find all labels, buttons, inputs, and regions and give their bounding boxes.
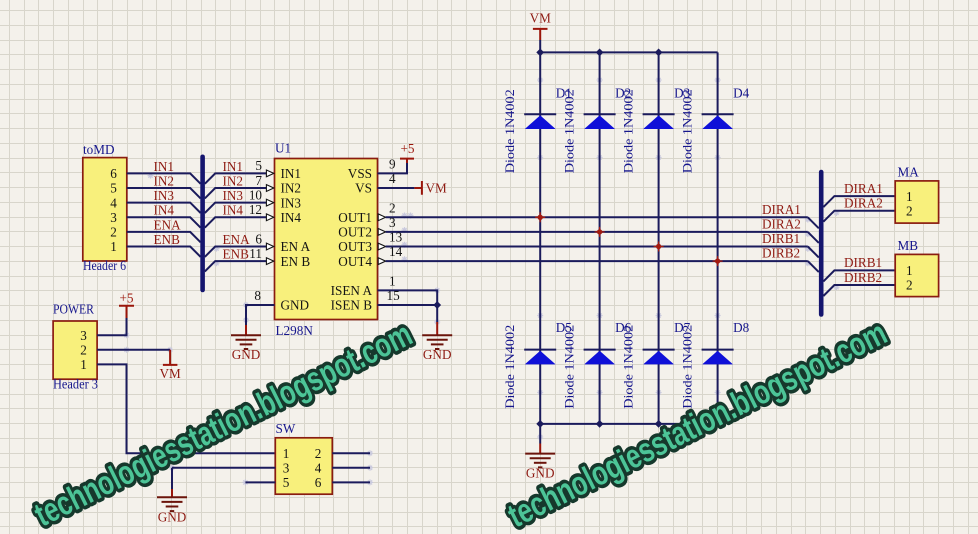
- wire toMD pin 5 (IN2) with bus entry: [127, 188, 201, 198]
- wire VM to top rail: [539, 40, 541, 52]
- power port VM (U1 VS): [414, 181, 422, 195]
- svg-text:DIRB2: DIRB2: [762, 246, 800, 261]
- svg-text:VM: VM: [530, 11, 552, 26]
- svg-text:1: 1: [283, 446, 290, 461]
- wire ENB from bus to U1: [205, 261, 266, 271]
- svg-text:+5: +5: [119, 291, 133, 306]
- connector POWER (Header 3): [53, 302, 98, 392]
- wire ISEN B pin 15: [378, 304, 438, 306]
- svg-text:VS: VS: [355, 181, 372, 196]
- junction bottom rail: [596, 420, 604, 428]
- power port +5 (POWER): [119, 306, 134, 318]
- diode D2 (1N4002): [584, 114, 616, 129]
- wire POWER pin 3 to +5: [97, 318, 126, 335]
- svg-text:6: 6: [110, 166, 117, 181]
- wire ISEN to ground: [436, 305, 438, 322]
- svg-text:MB: MB: [898, 238, 919, 253]
- wire SW pin 3 to ground: [171, 468, 173, 489]
- wire SW pin 6: [332, 481, 370, 483]
- svg-text:MA: MA: [898, 165, 920, 180]
- wire U1 VSS pin 9: [378, 163, 408, 173]
- svg-text:5: 5: [283, 475, 290, 490]
- svg-text:OUT3: OUT3: [338, 239, 372, 254]
- wire DIRA1 to MA: [823, 196, 895, 207]
- svg-text:D8: D8: [733, 320, 750, 335]
- svg-text:+5: +5: [400, 141, 414, 156]
- svg-text:IN3: IN3: [281, 195, 302, 210]
- svg-text:SW: SW: [276, 421, 296, 436]
- svg-text:ENB: ENB: [154, 232, 181, 247]
- svg-text:1: 1: [389, 273, 396, 288]
- svg-text:IN4: IN4: [223, 203, 244, 218]
- switch SW: [275, 421, 332, 494]
- svg-text:5: 5: [110, 181, 117, 196]
- wire ENA from bus to U1: [205, 247, 266, 257]
- svg-text:1: 1: [80, 357, 87, 372]
- bus entry DIRB1 (left): [808, 247, 819, 258]
- svg-text:2: 2: [906, 278, 913, 293]
- wire toMD pin 3 (IN4) with bus entry: [127, 217, 201, 227]
- wire OUT1 / DIR net: [386, 216, 808, 218]
- wire POWER pin 2 to VM: [97, 349, 170, 351]
- svg-text:OUT4: OUT4: [338, 254, 372, 269]
- svg-text:OUT1: OUT1: [338, 210, 372, 225]
- svg-text:POWER: POWER: [53, 302, 94, 317]
- U1 input pin arrows: [266, 170, 273, 265]
- svg-text:IN2: IN2: [154, 173, 175, 188]
- svg-text:VM: VM: [159, 366, 181, 381]
- svg-text:EN A: EN A: [281, 239, 311, 254]
- svg-text:IN4: IN4: [154, 203, 175, 218]
- svg-text:4: 4: [389, 171, 396, 186]
- svg-text:10: 10: [249, 187, 263, 202]
- diode D4 (1N4002): [702, 114, 734, 129]
- connector MB: [895, 238, 938, 297]
- svg-text:IN2: IN2: [223, 173, 244, 188]
- svg-text:IN3: IN3: [223, 188, 244, 203]
- svg-text:2: 2: [110, 225, 117, 240]
- wire toMD pin 6 (IN1) with bus entry: [127, 173, 201, 183]
- junction D1 column to OUT1: [535, 212, 545, 222]
- svg-text:2: 2: [389, 200, 396, 215]
- bus left: [200, 157, 205, 290]
- svg-text:Header 3: Header 3: [53, 377, 98, 392]
- svg-text:Diode 1N4002: Diode 1N4002: [621, 325, 635, 409]
- svg-text:8: 8: [254, 288, 261, 303]
- junction bottom rail: [536, 420, 544, 428]
- svg-text:5: 5: [255, 158, 262, 173]
- wire ISEN A pin 1: [378, 290, 438, 305]
- wire IN3 from bus to U1: [205, 203, 266, 213]
- svg-text:ISEN B: ISEN B: [331, 298, 373, 313]
- svg-text:2: 2: [315, 446, 322, 461]
- svg-text:toMD: toMD: [83, 142, 115, 157]
- junction top rail: [596, 49, 604, 57]
- wire U1 VS pin 4: [378, 187, 415, 189]
- svg-text:IN1: IN1: [223, 159, 244, 174]
- svg-text:VSS: VSS: [348, 166, 372, 181]
- svg-text:Diode 1N4002: Diode 1N4002: [503, 325, 517, 409]
- svg-text:6: 6: [315, 475, 322, 490]
- wire IN2 from bus to U1: [205, 188, 266, 198]
- junction top rail: [536, 49, 544, 57]
- svg-text:Diode 1N4002: Diode 1N4002: [680, 325, 694, 409]
- power port +5 (U1 VSS): [400, 159, 414, 163]
- junction D4 column to OUT4: [713, 256, 723, 266]
- svg-text:Diode 1N4002: Diode 1N4002: [562, 89, 576, 173]
- wire top rail: [540, 51, 717, 53]
- svg-text:3: 3: [80, 328, 87, 343]
- svg-text:VM: VM: [426, 181, 448, 196]
- svg-text:11: 11: [249, 246, 262, 261]
- wire DIRB1 to MB: [823, 270, 895, 281]
- svg-text:DIRB1: DIRB1: [762, 231, 800, 246]
- svg-text:ISEN A: ISEN A: [331, 283, 373, 298]
- svg-text:9: 9: [389, 156, 396, 171]
- wire toMD pin 2 (ENA) with bus entry: [127, 232, 201, 242]
- power port VM (top): [533, 29, 548, 40]
- wire DIRA2 to MA: [823, 211, 895, 222]
- bus right: [819, 172, 824, 315]
- diode D6 (1N4002): [584, 350, 616, 365]
- junction ISEN A/B: [433, 301, 441, 309]
- svg-text:DIRA1: DIRA1: [844, 181, 883, 196]
- svg-text:15: 15: [387, 288, 401, 303]
- bus entry DIRA1 (left): [808, 217, 819, 228]
- wire SW pin 5: [245, 481, 275, 483]
- svg-text:DIRA1: DIRA1: [762, 202, 801, 217]
- junction D3 column to OUT3: [654, 242, 664, 252]
- svg-text:IN2: IN2: [281, 181, 302, 196]
- svg-text:GND: GND: [423, 347, 452, 362]
- wire IN1 from bus to U1: [205, 173, 266, 183]
- svg-text:DIRA2: DIRA2: [762, 217, 801, 232]
- svg-text:OUT2: OUT2: [338, 225, 372, 240]
- wire diode column 3: [658, 52, 660, 424]
- wire SW pin 3: [172, 467, 275, 469]
- svg-text:GND: GND: [281, 298, 310, 313]
- svg-text:3: 3: [389, 215, 396, 230]
- wire OUT3 / DIR net: [386, 246, 808, 248]
- svg-text:14: 14: [389, 244, 403, 259]
- wire toMD pin 4 (IN3) with bus entry: [127, 203, 201, 213]
- diode D8 (1N4002): [702, 350, 734, 365]
- wire bottom rail to ground: [539, 424, 541, 444]
- junction top rail: [655, 49, 663, 57]
- svg-text:1: 1: [110, 239, 117, 254]
- wire U1 GND pin 8: [246, 305, 275, 325]
- svg-text:DIRB2: DIRB2: [844, 270, 882, 285]
- svg-text:D4: D4: [733, 85, 750, 100]
- wire DIRB2 to MB: [823, 285, 895, 296]
- connector toMD (Header 6): [83, 142, 127, 273]
- ground GND (SW): [157, 497, 187, 511]
- svg-text:DIRA2: DIRA2: [844, 196, 883, 211]
- wire IN4 from bus to U1: [205, 217, 266, 227]
- svg-text:Diode 1N4002: Diode 1N4002: [503, 89, 517, 173]
- wire diode column 1: [539, 52, 541, 424]
- svg-text:IN1: IN1: [281, 166, 302, 181]
- svg-text:2: 2: [906, 203, 913, 218]
- wire OUT4 / DIR net: [386, 260, 808, 262]
- ground GND (ISEN): [422, 335, 452, 349]
- svg-text:1: 1: [906, 263, 913, 278]
- connector MA: [895, 165, 938, 223]
- svg-text:7: 7: [255, 173, 262, 188]
- U1 output pin arrows: [378, 214, 385, 265]
- junction bottom rail: [655, 420, 663, 428]
- wire toMD pin 1 (ENB) with bus entry: [127, 247, 201, 257]
- svg-text:13: 13: [389, 230, 403, 245]
- IC U1 L298N: [275, 141, 378, 339]
- svg-text:ENA: ENA: [154, 217, 182, 232]
- svg-text:Diode 1N4002: Diode 1N4002: [562, 325, 576, 409]
- compile marks (grey crosses): [124, 77, 840, 485]
- power port VM (POWER): [163, 350, 178, 365]
- svg-text:U1: U1: [275, 141, 291, 156]
- svg-text:IN1: IN1: [154, 159, 175, 174]
- diode D7 (1N4002): [643, 350, 675, 365]
- ground GND (U1 pin 8): [231, 335, 261, 349]
- svg-text:L298N: L298N: [276, 323, 314, 338]
- svg-text:EN B: EN B: [281, 254, 311, 269]
- wire diode column 2: [599, 52, 601, 424]
- svg-text:12: 12: [249, 202, 262, 217]
- bus entry DIRA2 (left): [808, 232, 819, 243]
- svg-text:ENB: ENB: [223, 247, 250, 262]
- svg-text:1: 1: [906, 189, 913, 204]
- svg-text:6: 6: [255, 231, 262, 246]
- svg-text:GND: GND: [158, 509, 187, 524]
- svg-text:GND: GND: [232, 347, 261, 362]
- diode D1 (1N4002): [524, 114, 556, 129]
- svg-text:DIRB1: DIRB1: [844, 255, 882, 270]
- wire SW pin 2: [332, 452, 370, 454]
- junction D2 column to OUT2: [595, 227, 605, 237]
- svg-text:4: 4: [110, 195, 117, 210]
- svg-text:Header 6: Header 6: [83, 258, 126, 273]
- svg-text:Diode 1N4002: Diode 1N4002: [621, 89, 635, 173]
- bus entry DIRB2 (left): [808, 261, 819, 272]
- svg-text:3: 3: [283, 460, 290, 475]
- svg-text:4: 4: [315, 460, 322, 475]
- svg-text:3: 3: [110, 210, 117, 225]
- svg-text:IN4: IN4: [281, 210, 302, 225]
- wire SW pin 4: [332, 467, 370, 469]
- svg-text:2: 2: [80, 342, 87, 357]
- svg-text:ENA: ENA: [223, 232, 251, 247]
- ground GND (diodes): [525, 454, 555, 468]
- diode D3 (1N4002): [643, 114, 675, 129]
- wire OUT2 / DIR net: [386, 231, 808, 233]
- wire diode column 4: [717, 52, 719, 424]
- wire POWER pin 1 to SW pin 1: [97, 364, 275, 453]
- wire bottom rail: [540, 423, 717, 425]
- diode D5 (1N4002): [524, 350, 556, 365]
- svg-text:Diode 1N4002: Diode 1N4002: [680, 89, 694, 173]
- svg-text:IN3: IN3: [154, 188, 175, 203]
